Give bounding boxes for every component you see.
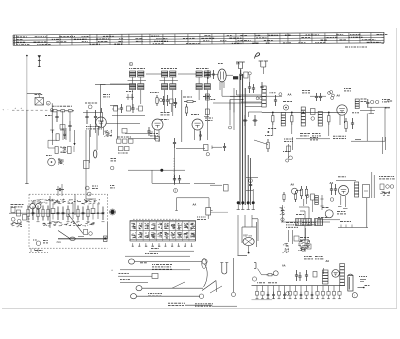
label bbox=[203, 96, 211, 98]
wire bbox=[133, 90, 208, 116]
valve V8 out bbox=[332, 270, 340, 278]
capacitor C20 bbox=[173, 138, 176, 148]
wire bbox=[110, 105, 118, 139]
wire bbox=[230, 97, 243, 100]
coupling caps bbox=[85, 110, 97, 124]
wire bbox=[366, 114, 368, 142]
label bbox=[161, 68, 177, 70]
screen can 4 bbox=[318, 112, 322, 127]
cable loop 5 bbox=[136, 282, 203, 291]
marks bbox=[60, 131, 66, 153]
wire bbox=[233, 88, 235, 130]
wire bbox=[50, 195, 75, 229]
wire bbox=[125, 133, 152, 135]
valve V1 bbox=[151, 113, 170, 143]
cable loop 6 bbox=[131, 294, 201, 299]
bracket 2 bbox=[254, 263, 256, 269]
wire bbox=[254, 140, 268, 145]
wire bbox=[273, 125, 329, 136]
bottom label 2 bbox=[195, 304, 237, 306]
output lead bbox=[57, 231, 108, 244]
switch bank bbox=[117, 137, 134, 153]
volume dashed lead bbox=[133, 218, 180, 220]
page right edge bbox=[396, 28, 398, 309]
capacitor C11 bbox=[274, 95, 277, 106]
far right parts bbox=[379, 177, 395, 196]
wire bbox=[238, 67, 265, 74]
U bracket bbox=[220, 263, 228, 275]
label AA2 bbox=[288, 93, 292, 97]
bus taps bbox=[237, 189, 255, 210]
wire bbox=[304, 226, 306, 252]
pi filter bbox=[126, 92, 134, 101]
parts right of V3 bbox=[226, 70, 251, 83]
capacitor C30 bbox=[295, 270, 302, 281]
node 1 marker bbox=[129, 62, 133, 66]
wire bbox=[86, 130, 97, 199]
ring rm bbox=[229, 126, 232, 129]
wire bbox=[86, 198, 96, 200]
wire bbox=[178, 73, 196, 75]
marks below bbox=[104, 127, 158, 137]
speaker LS1 bbox=[243, 238, 254, 246]
dash-dot vertical bbox=[173, 158, 175, 181]
tick lm bbox=[50, 130, 54, 133]
trimmer bbox=[159, 98, 162, 101]
harness vertical bbox=[232, 258, 236, 297]
label bbox=[150, 93, 192, 98]
IF transformer T3 group bbox=[160, 71, 178, 90]
pickup ring bbox=[252, 277, 256, 281]
wire bbox=[60, 120, 66, 130]
wire bbox=[146, 73, 162, 75]
elbow bbox=[258, 269, 267, 275]
label bbox=[196, 68, 209, 70]
wire bbox=[222, 95, 266, 97]
cap pair bbox=[315, 93, 322, 101]
wire bbox=[266, 95, 282, 97]
right arc bbox=[204, 264, 208, 287]
osc can bbox=[355, 99, 359, 109]
AVC network bbox=[204, 145, 210, 156]
resistor R14 bbox=[272, 112, 274, 125]
vert pair r bbox=[372, 172, 374, 198]
label v0 bbox=[103, 95, 110, 97]
wire bbox=[212, 146, 222, 150]
fuse ring bbox=[352, 293, 357, 298]
driver can bbox=[340, 264, 345, 286]
page bottom edge bbox=[2, 308, 397, 310]
wire bbox=[175, 198, 209, 211]
wire bbox=[246, 178, 258, 183]
antenna A1 bbox=[38, 55, 41, 67]
label AA bbox=[236, 62, 240, 66]
label dark bbox=[211, 99, 216, 101]
parts top bbox=[310, 138, 318, 140]
wire bbox=[280, 205, 285, 222]
speaker housing bbox=[242, 219, 258, 247]
capacitor C1 bbox=[55, 112, 58, 122]
capacitor C6 bbox=[174, 98, 177, 108]
tick bbox=[323, 268, 325, 274]
output valve pair bbox=[30, 204, 41, 217]
marks right of strip bbox=[197, 217, 206, 219]
resistor R26 bbox=[305, 186, 307, 199]
node 5 marker bbox=[174, 189, 178, 193]
svg-text:AA: AA bbox=[291, 184, 295, 187]
label AA6 bbox=[330, 181, 334, 185]
volume pot ring bbox=[273, 271, 278, 276]
svg-text:-: - bbox=[8, 108, 9, 111]
wire bbox=[27, 92, 41, 94]
valve V0 bbox=[96, 117, 107, 136]
chassis axis line bbox=[12, 107, 49, 110]
resistor R16 bbox=[328, 112, 330, 125]
wire bbox=[110, 83, 130, 85]
label bbox=[52, 105, 72, 107]
parts bbox=[284, 139, 293, 160]
annotation beta squiggle bbox=[255, 53, 260, 59]
dashed stub bbox=[29, 251, 48, 253]
junction bbox=[267, 131, 269, 133]
tick row bbox=[112, 108, 139, 110]
wire bbox=[152, 182, 215, 184]
AF bus bbox=[252, 283, 346, 286]
marks b3 bbox=[283, 152, 290, 163]
bus wire bbox=[239, 74, 241, 205]
wire bbox=[289, 137, 293, 158]
node b bbox=[88, 105, 92, 109]
label bbox=[382, 100, 390, 102]
capacitor mid2 bbox=[253, 115, 256, 126]
resistor R25 bbox=[300, 186, 302, 199]
speaker label bbox=[243, 236, 253, 238]
label AA8 bbox=[282, 265, 286, 268]
parts row mid bbox=[114, 104, 143, 113]
label bbox=[268, 128, 276, 130]
output transformer can bbox=[323, 270, 329, 284]
resistor R2 bbox=[59, 110, 67, 112]
nested corner 1 bbox=[237, 90, 263, 95]
osc can 2 bbox=[355, 182, 359, 197]
resistor R3 bbox=[67, 110, 75, 112]
node rings 2 bbox=[371, 100, 379, 103]
nested corner 2 bbox=[241, 101, 262, 103]
marks left edge bbox=[110, 159, 117, 216]
junctions bbox=[272, 112, 330, 114]
capacitor C31 bbox=[305, 270, 308, 281]
coupling can bbox=[206, 208, 213, 220]
main HT bus bbox=[262, 111, 345, 113]
loop wire bbox=[100, 85, 145, 124]
labels v6 bbox=[337, 212, 346, 214]
ring 307 bbox=[306, 195, 309, 198]
wire bbox=[151, 170, 153, 183]
label bbox=[333, 136, 361, 139]
cable 2 bbox=[112, 265, 191, 273]
entering wires bbox=[56, 184, 64, 196]
rings pair bbox=[256, 97, 262, 100]
wire bbox=[63, 111, 70, 121]
label bbox=[129, 68, 145, 70]
node c bbox=[279, 93, 282, 96]
socket ring L bbox=[48, 158, 64, 166]
wire bbox=[53, 128, 76, 146]
IF transformer T4 group bbox=[196, 71, 210, 90]
wire bbox=[369, 107, 375, 113]
nested corner 3 bbox=[245, 106, 262, 108]
wire bbox=[360, 110, 375, 112]
wire bbox=[48, 103, 52, 130]
wire bbox=[252, 299, 273, 301]
marks bbox=[286, 223, 299, 245]
label AA3 bbox=[337, 95, 341, 98]
can small bbox=[205, 94, 209, 100]
label bbox=[270, 92, 276, 94]
svg-text:REF xxx: REF xxx bbox=[243, 236, 253, 238]
IF transformer T2 group bbox=[128, 71, 146, 90]
wire bbox=[246, 190, 253, 192]
capacitor C19b bbox=[68, 121, 71, 131]
valve V4 bbox=[337, 105, 347, 125]
vert pair bbox=[383, 137, 386, 154]
label bbox=[46, 155, 52, 157]
label block dark bbox=[300, 134, 321, 136]
valve V2 bbox=[191, 115, 203, 142]
marks right edge bbox=[385, 101, 392, 108]
cable loop 1 bbox=[129, 259, 208, 264]
cap b3 bbox=[249, 180, 252, 190]
resistor R15 bbox=[291, 112, 293, 125]
wire bbox=[95, 84, 106, 86]
resistor R1 bbox=[51, 110, 59, 112]
wire bbox=[351, 107, 385, 141]
component box lm bbox=[60, 125, 65, 130]
aerial transformer T1 bbox=[35, 93, 44, 105]
wire bbox=[310, 95, 326, 97]
wire bbox=[174, 148, 176, 185]
cable 3 bbox=[118, 273, 158, 278]
label AA7 bbox=[326, 260, 330, 263]
label AA4 bbox=[193, 203, 197, 207]
node a bbox=[46, 101, 53, 112]
parts mid bbox=[318, 218, 340, 220]
marks low left bbox=[283, 244, 289, 253]
label bbox=[302, 91, 310, 93]
wire bbox=[213, 102, 262, 104]
svg-text:AA: AA bbox=[288, 93, 292, 97]
cathode line bbox=[173, 90, 182, 142]
capacitor C5 bbox=[166, 95, 169, 106]
wire bbox=[210, 185, 228, 192]
resistor R20 bbox=[55, 134, 59, 154]
left loop tall bbox=[202, 259, 206, 269]
left edge plus marks bbox=[3, 108, 9, 111]
resistor R8 bbox=[184, 100, 196, 102]
wire bbox=[300, 223, 316, 241]
decoupling caps bbox=[248, 82, 255, 93]
wire bbox=[281, 221, 330, 223]
wire bbox=[210, 211, 228, 213]
label q bbox=[283, 101, 292, 103]
capacitor mid1 bbox=[243, 115, 246, 126]
screen can 3 bbox=[301, 107, 305, 126]
switch bank A bbox=[296, 219, 312, 226]
resistor R28 bbox=[294, 191, 296, 202]
svg-text:AA: AA bbox=[282, 265, 286, 268]
label bbox=[86, 127, 102, 129]
wire bbox=[296, 138, 330, 140]
ticks below bbox=[31, 248, 38, 252]
wire bbox=[25, 110, 28, 184]
wire bbox=[366, 198, 368, 228]
wire bbox=[128, 169, 185, 172]
trimmer rings bbox=[85, 186, 98, 196]
part bbox=[313, 272, 317, 278]
svg-text:2Vw: 2Vw bbox=[57, 242, 62, 244]
wire bbox=[230, 100, 234, 113]
decoupling bank bbox=[255, 286, 341, 299]
label bbox=[361, 99, 367, 101]
component box bbox=[68, 146, 75, 154]
label bbox=[85, 102, 97, 104]
labels bbox=[304, 257, 323, 259]
chassis axis bbox=[13, 212, 104, 214]
small tube Q bbox=[283, 105, 288, 110]
valve V3 oval bbox=[218, 64, 226, 91]
cluster low bbox=[298, 240, 311, 251]
zigzag leads bbox=[202, 281, 222, 294]
wire bbox=[367, 106, 390, 108]
title block table bbox=[13, 32, 387, 45]
resistor R18 bbox=[345, 118, 347, 132]
bus wire bbox=[242, 74, 244, 205]
resistor R30 bbox=[266, 274, 274, 276]
wire loop r bbox=[363, 185, 370, 198]
title table footnote bbox=[345, 46, 367, 48]
label bbox=[352, 112, 359, 114]
valve V7 bbox=[322, 208, 333, 218]
wire bbox=[221, 81, 223, 96]
label top r bbox=[338, 176, 346, 178]
component box 2 bbox=[84, 161, 90, 169]
label bbox=[344, 89, 351, 91]
decoupler bbox=[311, 109, 316, 121]
valve V5 bbox=[292, 188, 298, 194]
capacitor C22 bbox=[223, 143, 226, 151]
grid resistor bbox=[185, 104, 187, 116]
speaker pins bbox=[238, 246, 250, 256]
meter M1 bbox=[33, 240, 48, 245]
resistor R7 bbox=[156, 95, 158, 106]
svg-text:AA: AA bbox=[193, 203, 197, 207]
node rings bbox=[330, 91, 334, 100]
band smudges bbox=[31, 199, 100, 226]
wire bbox=[206, 104, 208, 140]
wire bbox=[26, 55, 28, 110]
bus wire bbox=[248, 155, 250, 205]
elbow wires bbox=[296, 207, 309, 220]
svg-text:AA: AA bbox=[337, 95, 341, 98]
wire bbox=[149, 249, 194, 252]
dashed enclosure bbox=[29, 194, 108, 248]
wire bbox=[128, 138, 158, 140]
wire bbox=[83, 111, 100, 113]
parts below band bbox=[78, 230, 92, 237]
cable 4 bbox=[120, 280, 148, 283]
svg-text:AA: AA bbox=[326, 260, 330, 263]
tag strip TS1 bbox=[130, 221, 196, 247]
node ring bbox=[286, 292, 290, 296]
bus wire bbox=[244, 88, 246, 205]
capacitor C21 bbox=[173, 175, 181, 184]
wire bbox=[336, 179, 356, 181]
parts between tubes bbox=[162, 96, 173, 112]
nested corner 4 bbox=[249, 112, 263, 117]
top tee caps bbox=[236, 61, 268, 69]
wire bbox=[90, 124, 95, 137]
component box bbox=[205, 109, 209, 115]
wire rm bbox=[229, 100, 231, 126]
dark part br bbox=[104, 236, 108, 242]
ring loop6 end bbox=[199, 294, 203, 298]
tick bbox=[204, 116, 209, 118]
label bbox=[205, 118, 213, 120]
bottom rail r bbox=[338, 222, 368, 228]
label B+ bbox=[359, 277, 367, 282]
label AA5 bbox=[291, 184, 295, 187]
resistor R4 bbox=[100, 108, 102, 126]
cluster 310 bbox=[311, 194, 319, 212]
capacitor C16 bbox=[351, 118, 354, 129]
left ticks v3 bbox=[206, 70, 219, 79]
wire bbox=[107, 222, 109, 239]
capacitor C24 bbox=[330, 184, 337, 195]
screen can bbox=[262, 86, 266, 107]
arrow mark bbox=[358, 286, 370, 289]
cable 7 bbox=[168, 303, 212, 305]
capacitor C15 bbox=[366, 99, 369, 107]
capacitor C9 bbox=[260, 82, 263, 92]
wire bbox=[238, 215, 252, 256]
tick pair bbox=[243, 120, 258, 122]
wire bbox=[48, 140, 57, 148]
cable 0b bbox=[125, 253, 190, 256]
marks right cluster bbox=[296, 191, 307, 207]
valve V6 bbox=[330, 186, 348, 209]
electrolytic can bbox=[348, 274, 353, 291]
arrow marks bbox=[321, 195, 324, 210]
wire junction bbox=[239, 96, 243, 101]
screen can 2 bbox=[281, 112, 285, 126]
node d bbox=[328, 92, 335, 97]
diagonal wire bbox=[68, 214, 83, 234]
resistor R24 bbox=[265, 136, 272, 153]
switch bank B bbox=[315, 219, 323, 226]
label lm bbox=[45, 115, 53, 117]
input jack cluster bbox=[9, 205, 27, 227]
resistor R27 bbox=[283, 192, 285, 202]
output stage band bbox=[27, 204, 105, 222]
wire bbox=[176, 147, 205, 149]
oval cap bbox=[94, 150, 97, 158]
